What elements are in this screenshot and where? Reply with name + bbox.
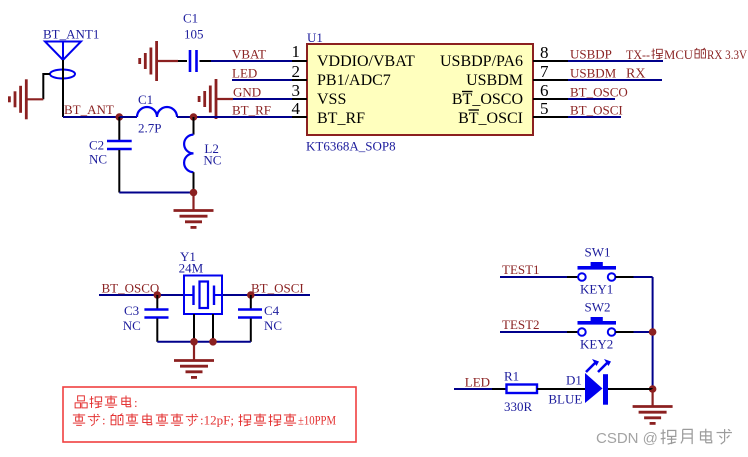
pin 5 BT_OSCI bbox=[458, 99, 568, 127]
svg-text:R1: R1 bbox=[504, 369, 519, 384]
svg-text:LED: LED bbox=[465, 375, 490, 390]
wire bottom rail (C2/L2) bbox=[119, 192, 193, 194]
wire SW1 to rail bbox=[634, 276, 653, 278]
svg-text:BT_ANT1: BT_ANT1 bbox=[43, 27, 99, 42]
switch SW1 KEY1 bbox=[500, 245, 634, 297]
svg-text:8: 8 bbox=[540, 43, 549, 62]
svg-text:NC: NC bbox=[264, 318, 282, 333]
antenna BT_ANT1 bbox=[45, 42, 81, 79]
svg-text:KEY2: KEY2 bbox=[580, 337, 613, 352]
svg-text:1: 1 bbox=[292, 42, 301, 61]
wire LED to R1 bbox=[454, 388, 496, 390]
wire BT_RF bbox=[194, 116, 293, 118]
capacitor C3 NC bbox=[123, 295, 169, 342]
pin 2 PB1/ADC7 bbox=[292, 62, 391, 89]
switch SW2 KEY2 bbox=[500, 300, 634, 352]
svg-text:USBDP/PA6: USBDP/PA6 bbox=[440, 53, 523, 70]
wire antenna stem bbox=[43, 60, 63, 117]
junction crystal rail left bbox=[190, 338, 198, 346]
wire crystal case pins bbox=[194, 314, 213, 342]
wire right vertical rail bbox=[652, 277, 654, 389]
svg-text:6: 6 bbox=[540, 81, 549, 100]
svg-text:2: 2 bbox=[292, 62, 301, 81]
wire BT_OSCI (pin5) bbox=[568, 116, 621, 118]
svg-text:GND: GND bbox=[233, 85, 261, 100]
junction BT_OSCI node bbox=[247, 291, 255, 299]
svg-text:D1: D1 bbox=[566, 373, 582, 388]
svg-text:C1: C1 bbox=[138, 92, 153, 107]
svg-text:BT_OSCO: BT_OSCO bbox=[102, 281, 160, 296]
svg-text:C2: C2 bbox=[89, 138, 104, 153]
svg-text:24M: 24M bbox=[179, 261, 204, 276]
pin 4 BT_RF bbox=[292, 99, 366, 127]
svg-text:VBAT: VBAT bbox=[232, 47, 266, 62]
svg-text:KT6368A_SOP8: KT6368A_SOP8 bbox=[306, 139, 396, 154]
pin 8 USBDP/PA6 bbox=[440, 43, 568, 70]
svg-text:BT_ANT: BT_ANT bbox=[64, 102, 114, 117]
svg-text:U1: U1 bbox=[307, 30, 323, 45]
inductor-style capacitor C1 2.7P (series) bbox=[119, 92, 193, 136]
pin 6 BT_OSCO bbox=[452, 81, 568, 108]
svg-text:7: 7 bbox=[540, 62, 549, 81]
ground GND (pin3) bbox=[199, 79, 233, 119]
svg-text:BLUE: BLUE bbox=[548, 392, 582, 407]
crystal Y1 24M bbox=[184, 276, 222, 315]
svg-text:RX: RX bbox=[626, 67, 645, 82]
capacitor C1 105 (top) bbox=[157, 11, 211, 73]
wire BT_OSCO (pin6) bbox=[568, 98, 615, 100]
svg-text:C3: C3 bbox=[124, 303, 139, 318]
svg-text:330R: 330R bbox=[504, 399, 533, 414]
svg-text:TEST2: TEST2 bbox=[502, 317, 540, 332]
svg-text:BT_OSCO: BT_OSCO bbox=[570, 85, 628, 100]
svg-text:NC: NC bbox=[203, 153, 221, 168]
wire LED bbox=[232, 79, 292, 81]
svg-text:±10PPM: ±10PPM bbox=[298, 413, 336, 428]
op-amp U1 chip body KT6368A_SOP8 bbox=[306, 30, 533, 154]
svg-text:SW2: SW2 bbox=[585, 300, 611, 315]
wire D1 to rail bbox=[608, 388, 653, 390]
wire crystal bottom rail bbox=[157, 341, 251, 343]
ground (RF network) bbox=[174, 193, 214, 228]
svg-text:NC: NC bbox=[89, 152, 107, 167]
junction bottom node bbox=[190, 189, 198, 197]
svg-text:3: 3 bbox=[292, 81, 301, 100]
junction BT_ANT node bbox=[116, 113, 124, 121]
svg-text::12pF;: :12pF; bbox=[200, 413, 234, 428]
svg-text:BT_OSCI: BT_OSCI bbox=[251, 281, 304, 296]
junction crystal rail right bbox=[209, 338, 217, 346]
note box crystal selection bbox=[63, 387, 356, 442]
svg-text:LED: LED bbox=[232, 66, 257, 81]
wire USBDP bbox=[568, 60, 663, 62]
wire R1 to D1 bbox=[537, 388, 585, 390]
watermark CSDN bbox=[596, 429, 732, 447]
junction node C1/L2/BT_RF bbox=[190, 113, 198, 121]
wire GND bbox=[233, 98, 292, 100]
capacitor C2 NC (shunt) bbox=[89, 117, 132, 193]
svg-text:VDDIO/VBAT: VDDIO/VBAT bbox=[317, 53, 415, 70]
svg-text:CSDN @: CSDN @ bbox=[596, 430, 658, 447]
svg-text:5: 5 bbox=[540, 99, 549, 118]
wire USBDM bbox=[568, 79, 662, 81]
svg-text:BT_OSCI: BT_OSCI bbox=[570, 103, 623, 118]
svg-text:RX 3.3V: RX 3.3V bbox=[707, 47, 748, 62]
svg-text:MCU: MCU bbox=[664, 47, 694, 62]
inductor L2 NC (shunt) bbox=[184, 117, 221, 193]
svg-text:USBDM: USBDM bbox=[570, 66, 617, 81]
svg-text:105: 105 bbox=[184, 27, 204, 42]
svg-text:2.7P: 2.7P bbox=[138, 121, 161, 136]
junction rail SW2 bbox=[649, 328, 657, 336]
wire BT_OSCI (crystal right) bbox=[222, 294, 310, 296]
svg-text:C4: C4 bbox=[264, 303, 280, 318]
wire BT_OSCO (crystal left) bbox=[99, 294, 184, 296]
junction rail LED bbox=[649, 385, 657, 393]
resistor R1 330R bbox=[504, 369, 537, 415]
svg-text:4: 4 bbox=[292, 99, 301, 118]
svg-text:BT_RF: BT_RF bbox=[232, 103, 271, 118]
svg-text:BT_OSCO: BT_OSCO bbox=[452, 91, 523, 108]
ground (top cap) bbox=[140, 41, 157, 81]
svg-text:NC: NC bbox=[123, 318, 141, 333]
svg-text:SW1: SW1 bbox=[585, 245, 611, 260]
svg-text:USBDP: USBDP bbox=[570, 47, 612, 62]
pin 7 USBDM bbox=[466, 62, 568, 89]
pin 3 VSS bbox=[292, 81, 347, 108]
svg-text:TEST1: TEST1 bbox=[502, 262, 540, 277]
svg-text:BT_OSCI: BT_OSCI bbox=[458, 110, 523, 127]
wire VBAT bbox=[211, 60, 292, 62]
capacitor C4 NC bbox=[238, 295, 282, 342]
svg-text::: : bbox=[102, 413, 106, 428]
svg-text:PB1/ADC7: PB1/ADC7 bbox=[317, 72, 391, 89]
node BT_ANT wire bbox=[63, 116, 137, 118]
svg-text:VSS: VSS bbox=[317, 91, 346, 108]
svg-text::: : bbox=[134, 395, 138, 410]
ground (antenna, left) bbox=[9, 79, 43, 119]
svg-text:TX--: TX-- bbox=[626, 47, 650, 62]
wire SW2 to rail bbox=[634, 331, 653, 333]
note TX--接MCU的RX 3.3V bbox=[626, 47, 748, 62]
junction BT_OSCO node bbox=[154, 291, 162, 299]
svg-text:KEY1: KEY1 bbox=[580, 282, 613, 297]
svg-text:USBDM: USBDM bbox=[466, 72, 523, 89]
ground (LED/keys) bbox=[633, 389, 673, 423]
pin 1 VDDIO/VBAT bbox=[292, 42, 416, 70]
svg-text:BT_RF: BT_RF bbox=[317, 110, 365, 127]
diode D1 BLUE bbox=[548, 359, 611, 407]
svg-text:C1: C1 bbox=[183, 11, 198, 26]
ground (crystal) bbox=[174, 342, 214, 378]
